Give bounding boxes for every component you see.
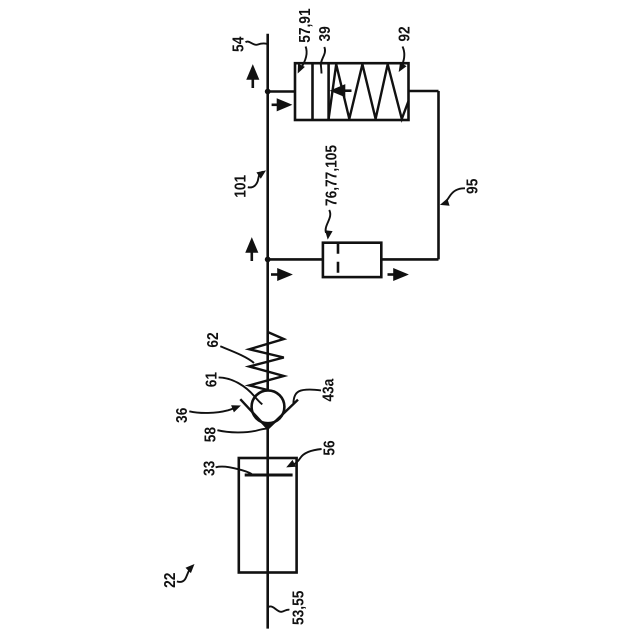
svg-text:43a: 43a [320,378,338,402]
svg-text:36: 36 [173,408,191,423]
svg-text:54: 54 [230,36,248,52]
svg-text:39: 39 [316,26,334,41]
svg-text:57,91: 57,91 [296,8,314,42]
svg-text:101: 101 [231,175,249,198]
svg-text:53,55: 53,55 [290,591,308,625]
svg-text:33: 33 [201,461,219,476]
svg-text:76,77,105: 76,77,105 [323,145,341,206]
svg-text:95: 95 [464,179,482,194]
svg-text:62: 62 [204,332,222,347]
svg-text:61: 61 [203,372,221,387]
svg-text:58: 58 [202,427,220,442]
svg-text:92: 92 [396,26,414,41]
svg-text:22: 22 [161,573,179,588]
svg-text:56: 56 [320,440,338,455]
